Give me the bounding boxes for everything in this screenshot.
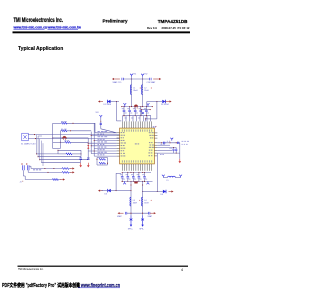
inductor L2 <box>141 85 142 95</box>
svg-text:D1 SS14: D1 SS14 <box>104 104 112 106</box>
junction aux2 <box>150 109 151 110</box>
capacitor C22 <box>125 212 126 215</box>
power port Y1 antenna left <box>130 74 133 77</box>
svg-text:.: . <box>46 26 47 30</box>
wire R11 to arrow <box>69 168 71 170</box>
junction row1 b <box>72 123 73 124</box>
labels bottom cap row <box>120 174 147 179</box>
IC U1 bottom pins <box>122 164 151 171</box>
junction bottom bus a <box>130 181 131 182</box>
wire right bus vertical <box>179 143 181 159</box>
diode D2 <box>162 100 165 103</box>
ground GND2 <box>87 163 90 168</box>
footer rule <box>18 266 189 267</box>
wire D3 to rail <box>111 190 116 192</box>
red speck top coils <box>139 87 142 90</box>
wire D1 to rail <box>111 101 120 103</box>
power port arrow J1 row2 <box>70 171 75 173</box>
svg-text:C16 VBAT: C16 VBAT <box>147 81 157 84</box>
capacitor C9 left <box>79 157 82 162</box>
capacitor C26 polarized <box>26 163 29 170</box>
wire bottom bus <box>122 180 153 182</box>
speaker terminal T1 <box>130 216 133 227</box>
IC U1 right pins <box>154 133 157 156</box>
svg-text:TMI Microelectronics Inc.: TMI Microelectronics Inc. <box>14 18 64 24</box>
wire arrow to D3 <box>102 190 109 192</box>
svg-text:TMPA4Z51DB: TMPA4Z51DB <box>158 19 188 24</box>
svg-text:L1: L1 <box>133 88 135 90</box>
junction bottom bus b <box>142 181 143 182</box>
svg-text:D2 SS14: D2 SS14 <box>161 104 169 106</box>
wire bottom left rail <box>116 173 121 190</box>
red speck bottom coils <box>138 199 141 202</box>
junction gather right <box>146 115 147 116</box>
wire branch1 top <box>131 77 133 107</box>
junction crystal row2 <box>35 138 36 139</box>
wire D4 row to branch2 <box>143 191 158 193</box>
power port arrow bottom right <box>150 212 156 214</box>
power port arrow J1 row1 <box>70 167 75 169</box>
wire aux junction cluster <box>141 110 150 116</box>
label right row2 <box>182 143 188 146</box>
IC U1 left pin names <box>121 132 126 156</box>
wire right row1 <box>157 142 179 144</box>
power port VBAT arrow top-right <box>166 100 172 102</box>
junction D1 rail <box>116 101 117 102</box>
junction bus right end <box>152 106 153 107</box>
junction right rail corner <box>145 118 146 119</box>
svg-text:www.tmi-mic.com.cn: www.tmi-mic.com.cn <box>13 26 48 30</box>
label J1 rows <box>33 169 41 170</box>
junction J1 row2 <box>47 172 48 173</box>
power port VBAT arrow top-left <box>98 100 103 102</box>
svg-text:L5: L5 <box>167 180 169 182</box>
junction aux1 <box>141 109 142 110</box>
wire right row3 <box>157 147 176 149</box>
power port Y4 right <box>170 138 173 141</box>
wire diode row bottom right <box>157 191 163 193</box>
power port Y2 antenna right <box>141 74 144 77</box>
junction dots bottom cap row <box>122 172 145 182</box>
junction bottom band a <box>130 213 131 214</box>
svg-text:P4 OF 12: P4 OF 12 <box>178 26 190 30</box>
junction J1 row1 b <box>53 168 54 169</box>
left bus verticals <box>88 123 95 160</box>
junction bottom bus c <box>122 181 123 182</box>
junction J1 row1 a <box>44 168 45 169</box>
wire R12 to arrow <box>69 171 71 173</box>
junction top band left <box>131 78 132 79</box>
wire J1 row1 <box>31 168 62 170</box>
junction stair 3 <box>39 159 40 160</box>
wire crystal row 2 <box>28 138 119 140</box>
wire gather line top <box>123 115 152 117</box>
svg-text:VBAT: VBAT <box>117 215 122 218</box>
svg-text:33nH: 33nH <box>144 90 149 92</box>
net labels left pin rows <box>98 131 108 155</box>
wire top band <box>123 78 149 80</box>
junction bus b1 <box>131 106 132 107</box>
wire network vertical v2 <box>59 131 61 149</box>
wire bottom band <box>127 212 149 214</box>
label R2 <box>61 128 67 131</box>
junction R10 right <box>80 153 81 154</box>
capacitor C13 vertical <box>172 148 174 154</box>
junction right row3 <box>173 147 174 148</box>
junction right row1 b <box>169 142 170 143</box>
junction loop left <box>57 150 58 151</box>
capacitor C25 polarized <box>21 163 24 170</box>
wire branch2 top <box>142 77 144 107</box>
IC U1 body <box>120 128 155 164</box>
wire left rail top <box>117 102 122 121</box>
svg-text:J1: J1 <box>20 182 22 184</box>
junction v1 row3 <box>52 137 53 138</box>
svg-text:D4: D4 <box>161 194 163 196</box>
left IC wire rows <box>88 133 116 156</box>
power port arrow D3 <box>98 190 103 192</box>
junction top band right <box>142 78 143 79</box>
svg-text:VBAT C15: VBAT C15 <box>113 81 122 84</box>
label R1 <box>61 120 67 123</box>
power port Y8 on top bus right <box>147 103 150 106</box>
wire top bus <box>122 106 153 108</box>
junction bottom band b <box>142 213 143 214</box>
junction row3 a <box>62 137 63 138</box>
svg-text:VBAT: VBAT <box>148 215 153 218</box>
capacitor C23 <box>149 212 150 215</box>
junction branch2 D4 row <box>142 191 143 192</box>
junction bottom gather b <box>142 172 143 173</box>
junction stair 1 <box>36 153 37 154</box>
junction R8 <box>96 159 97 160</box>
svg-text:33nH: 33nH <box>133 202 138 204</box>
IC U1 top pins <box>122 121 151 128</box>
junction bottom bus d <box>144 181 145 182</box>
svg-text:TMI Microelectronics Inc.: TMI Microelectronics Inc. <box>18 268 44 271</box>
power port Y7 on top bus left <box>123 103 126 106</box>
junction right rail top <box>156 101 157 102</box>
capacitor C12 <box>178 142 179 144</box>
capacitor C10 left <box>87 158 90 160</box>
svg-text:TX2: TX2 <box>144 74 147 76</box>
junction D3 <box>116 190 117 191</box>
junction bottom gather a <box>130 172 131 173</box>
wire pin drops top <box>123 116 151 122</box>
resistor R8 loop bottom <box>97 158 108 166</box>
junction Y3 stem <box>99 120 102 123</box>
wire C26 stem to row2 <box>27 170 29 172</box>
capacitor C14 vertical <box>175 148 177 154</box>
header rule <box>13 31 191 33</box>
wire J1 row3 <box>25 179 52 181</box>
wire stair row B <box>38 156 81 158</box>
wire J1 row2 <box>28 171 62 173</box>
wire right row2 <box>157 144 170 146</box>
wire J1 row1 hook <box>29 166 31 168</box>
inductor L3 <box>130 197 131 206</box>
resistor R1 row1 <box>53 122 95 124</box>
inductor L4 <box>142 197 143 206</box>
label right row1 <box>182 140 190 143</box>
junction bus l1 <box>88 143 89 144</box>
capacitor C1 <box>122 78 123 81</box>
wire row3 <box>53 137 88 139</box>
wire branch2 bottom <box>142 181 144 215</box>
diode D3 <box>108 189 111 192</box>
inductor L1 <box>130 85 131 95</box>
power port Y10 on bottom bus right <box>147 181 150 184</box>
svg-text:TX1: TX1 <box>133 74 136 76</box>
wire network bottom h <box>53 148 61 150</box>
wire right row5 <box>157 152 179 154</box>
capacitor C2 <box>150 78 151 81</box>
label R7 <box>65 139 70 142</box>
svg-text:Preliminary: Preliminary <box>103 19 128 24</box>
IC U1 right pin names <box>148 132 154 156</box>
svg-text:33nH: 33nH <box>144 202 149 204</box>
wire right rail bottom <box>156 153 158 191</box>
junction row4 a <box>60 142 61 143</box>
wire D3 row to branch1 <box>116 190 131 192</box>
resistor R10 <box>58 153 81 155</box>
resistor R2 row2 <box>60 130 91 132</box>
svg-text:SPK-: SPK- <box>139 229 144 231</box>
junction bus left end <box>121 106 122 107</box>
svg-text:D3: D3 <box>105 193 107 195</box>
TVS D5 red vertical <box>87 145 89 149</box>
ferrite bead FB1 red dome <box>134 105 138 109</box>
labels top cap row <box>122 108 149 113</box>
footer link underline <box>78 287 120 289</box>
wire branch1 bottom <box>130 181 132 215</box>
junction bus b2 <box>142 106 143 107</box>
ferrite bead FB2 red dome left <box>63 136 66 140</box>
power port arrow bottom left <box>118 212 124 214</box>
power port arrow J1 row3 <box>60 178 65 180</box>
svg-text:2008-07-25: 2008-07-25 <box>162 26 177 30</box>
red mark IC corner <box>155 125 158 128</box>
IC U1 center label <box>135 143 139 144</box>
wire right rail down <box>145 102 157 122</box>
capacitor C11 <box>164 142 165 144</box>
junction branch1 D3 row <box>131 190 132 191</box>
junction J1 label dot <box>21 180 24 183</box>
power port VDD right arrow top band <box>153 78 161 80</box>
power port Y5 bottom right <box>162 175 165 178</box>
wire stair row C <box>40 159 89 161</box>
labels right side specks <box>160 141 172 155</box>
junction gather left <box>123 115 124 116</box>
power port Y9 on bottom bus left <box>123 181 126 184</box>
svg-text:Typical Application: Typical Application <box>18 46 63 52</box>
svg-text:www.tmi-mic.com.tw: www.tmi-mic.com.tw <box>47 26 82 30</box>
ground GND3 <box>179 159 182 164</box>
svg-text:L2: L2 <box>144 88 146 90</box>
wire loop R10 <box>58 150 81 156</box>
ground GND1 <box>79 163 82 168</box>
wire bottom gather line <box>123 171 152 173</box>
crystal X1 box <box>22 133 28 141</box>
resistor R13 <box>52 179 58 181</box>
IC U1 left pins <box>117 133 120 156</box>
svg-text:VIO: VIO <box>96 112 100 114</box>
junction right row1 c <box>176 142 177 143</box>
svg-text:Rev 0.9: Rev 0.9 <box>147 26 157 30</box>
junction branch2 coil top <box>142 184 143 185</box>
wire top-right diode row <box>147 101 162 103</box>
wire stair row D <box>41 162 80 164</box>
labels above IC top pins <box>125 117 148 120</box>
wire stair row A <box>37 153 59 155</box>
IC U1 designator <box>153 126 156 128</box>
svg-text:4: 4 <box>181 268 183 272</box>
junction dots top cap row <box>124 106 147 116</box>
power port Y3 top left of IC <box>99 115 102 118</box>
inductor L5 horizontal <box>163 176 180 177</box>
wire jog to bus <box>146 102 148 107</box>
IC U1 bottom pin names <box>122 160 152 162</box>
capacitor C24 on Y3 stem <box>100 123 102 124</box>
svg-text:SPK+: SPK+ <box>128 229 134 231</box>
junction branch1 coil top <box>130 184 131 185</box>
IC U1 top pin names <box>122 129 152 131</box>
resistor R12 <box>62 172 69 174</box>
junction stair 2 <box>38 156 39 157</box>
diode D1 <box>107 100 110 103</box>
wire left vertical drop bus <box>37 135 44 166</box>
speaker terminal T2 <box>141 216 144 227</box>
resistor R7 row4 <box>53 141 88 143</box>
junction row2 b <box>70 130 71 131</box>
junction right row1 a <box>161 142 162 143</box>
junction bus l2 <box>88 148 89 149</box>
diode D4 <box>163 190 166 193</box>
power port arrow D4 <box>169 190 174 192</box>
wire network vertical v1 <box>52 123 54 148</box>
junction row3 b <box>66 137 67 138</box>
wire crystal row 1 <box>28 134 119 136</box>
capacitor C8 small <box>142 113 144 114</box>
capacitor row C3-C7 between bus and gather line <box>123 107 126 116</box>
wire Y3 stem <box>101 118 117 133</box>
junction right row5 <box>176 153 177 154</box>
wire right row4 <box>157 149 172 151</box>
junction crystal row1 <box>34 134 35 135</box>
svg-text:X1 26MHz TCXO: X1 26MHz TCXO <box>21 144 36 146</box>
power port Y6 bottom right <box>179 175 182 178</box>
svg-text:33nH: 33nH <box>133 90 138 92</box>
resistor R11 <box>62 168 69 170</box>
wire C25 stem to row3 <box>23 170 25 179</box>
wire R13 to arrow <box>58 179 60 181</box>
junction rail bottom <box>157 191 158 192</box>
power port VDD left arrow top band <box>112 78 120 80</box>
ferrite bead FB3 red dome bottom <box>134 182 138 184</box>
capacitor row bottom C17-C21 <box>121 172 124 181</box>
